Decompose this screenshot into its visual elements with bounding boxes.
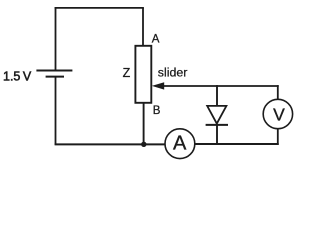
wire: potentiometer B down to bottom junction: [143, 103, 145, 145]
diode D1 triangle: [207, 106, 226, 124]
wire: right vertical (slider wire to voltmeter top): [277, 85, 279, 100]
wire: top-right vertical down to potentiometer terminal A: [142, 8, 144, 46]
wire: bottom horizontal right segment (ammeter to bottom-right corner): [195, 143, 279, 145]
ammeter A: [165, 129, 195, 159]
slider arrowhead: [152, 82, 164, 89]
svg-text:V: V: [273, 104, 285, 124]
junction dot at bottom node: [141, 142, 146, 147]
battery B1 long plate: [36, 70, 72, 72]
wire: top-left vertical (battery + to top wire): [55, 7, 57, 71]
svg-text:B: B: [153, 105, 161, 117]
wire: voltmeter bottom to bottom-right corner: [277, 129, 279, 146]
svg-text:A: A: [173, 132, 187, 154]
slider arrow wire (wiper): [160, 85, 279, 87]
wire: top horizontal: [55, 7, 144, 9]
svg-text:A: A: [152, 33, 160, 45]
battery B1 short plate: [46, 76, 64, 78]
diode D1 cathode wire: [216, 125, 218, 144]
svg-text:1.5 V: 1.5 V: [3, 70, 32, 84]
wire: left vertical (battery - to bottom wire): [55, 77, 57, 145]
svg-text:Z: Z: [123, 66, 131, 80]
potentiometer Z track: [135, 46, 151, 103]
svg-text:slider: slider: [158, 65, 188, 79]
wire: bottom horizontal left segment: [55, 143, 165, 145]
diode D1 cathode bar: [206, 124, 228, 126]
voltmeter V: [263, 99, 292, 128]
diode D1 anode wire: [216, 85, 218, 106]
